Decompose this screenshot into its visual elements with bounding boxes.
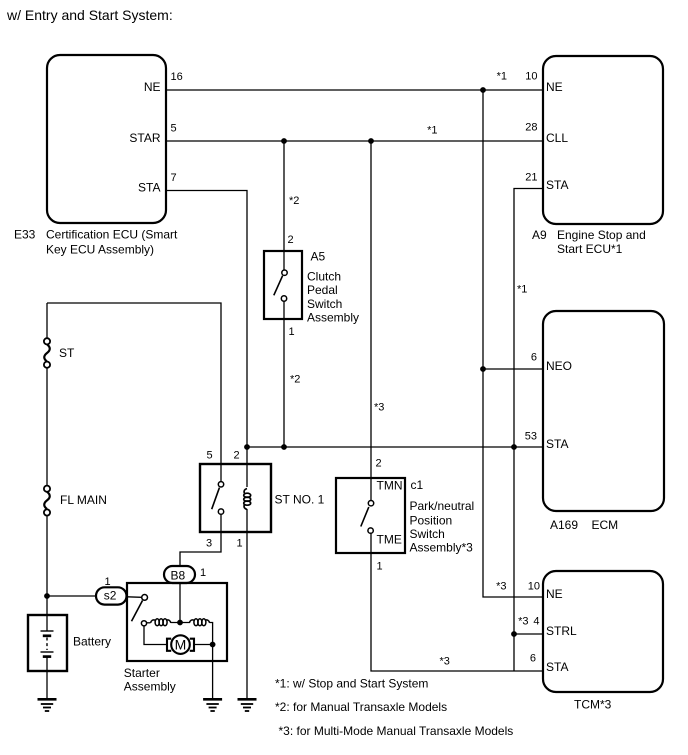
node s2 branch junction <box>44 593 50 599</box>
svg-text:*2: *2 <box>289 195 299 207</box>
relay switch contacts <box>218 482 223 487</box>
svg-text:c1: c1 <box>411 478 424 492</box>
svg-text:ST NO. 1: ST NO. 1 <box>275 493 325 507</box>
svg-text:Park/neutral: Park/neutral <box>410 499 475 513</box>
wire A5 branch lower <box>283 301 285 447</box>
svg-text:2: 2 <box>288 234 294 246</box>
svg-text:FL MAIN: FL MAIN <box>60 493 107 507</box>
node motor junction <box>210 642 216 648</box>
wire battery to ground <box>46 657 48 699</box>
wire A9 STA down to TCM STA line <box>514 189 543 672</box>
wire TME down to TCM STA <box>371 533 543 671</box>
svg-text:6: 6 <box>531 352 537 364</box>
svg-text:Switch: Switch <box>410 527 445 541</box>
ground battery <box>38 699 57 711</box>
svg-text:STA: STA <box>546 178 568 192</box>
svg-text:*1: w/ Stop and Start System: *1: w/ Stop and Start System <box>275 677 428 691</box>
wire B8 down to coil junction <box>179 583 181 623</box>
wire E33 STA down <box>166 191 247 488</box>
svg-text:A169: A169 <box>550 518 578 532</box>
svg-text:Key ECU Assembly): Key ECU Assembly) <box>46 243 154 257</box>
wire STA bus to ECM <box>247 446 543 448</box>
wire contact down to motor <box>144 626 168 645</box>
fusible link ST <box>44 338 75 368</box>
wire junction to s2 <box>47 595 96 597</box>
svg-text:Pedal: Pedal <box>307 283 338 297</box>
svg-text:Starter: Starter <box>124 666 160 680</box>
wire relay pin3 to B8 <box>180 514 221 566</box>
wire starter to ground <box>212 645 214 700</box>
svg-text:1: 1 <box>377 561 383 573</box>
wire *1 vertical to TCM NE <box>483 90 543 597</box>
svg-text:*2: *2 <box>290 374 300 386</box>
node STRL junction <box>511 631 517 637</box>
svg-text:STA: STA <box>546 660 568 674</box>
svg-text:A5: A5 <box>311 250 326 264</box>
svg-text:4: 4 <box>533 616 539 628</box>
svg-text:CLL: CLL <box>546 131 568 145</box>
svg-text:STAR: STAR <box>129 131 160 145</box>
svg-text:Start ECU*1: Start ECU*1 <box>557 242 623 256</box>
A5 switch contacts <box>282 270 287 275</box>
svg-text:5: 5 <box>207 450 213 462</box>
wire A5 branch upper <box>283 141 285 270</box>
relay coil <box>244 489 251 510</box>
relay switch wire top <box>220 464 222 482</box>
starter hold-in coil <box>189 619 209 626</box>
wire motor to junction <box>194 644 213 646</box>
svg-text:*1: *1 <box>517 284 527 296</box>
wire NE bus E33 to A9 <box>166 89 543 91</box>
svg-text:16: 16 <box>171 71 183 83</box>
svg-text:Switch: Switch <box>307 297 342 311</box>
wire right coil to motor junction <box>209 623 212 645</box>
node STA bus left junction <box>244 444 250 450</box>
svg-text:B8: B8 <box>171 569 186 583</box>
node STAR/park junction <box>368 138 374 144</box>
starter pull-in coil <box>151 619 171 626</box>
svg-text:E33: E33 <box>14 228 36 242</box>
svg-text:M: M <box>175 637 187 653</box>
wire left main upper <box>46 303 48 338</box>
starter switch lever <box>132 601 143 622</box>
svg-text:*1: *1 <box>427 125 437 137</box>
fusible link FL MAIN <box>44 486 107 516</box>
svg-text:TCM*3: TCM*3 <box>574 698 612 712</box>
wire contact to left coil <box>147 622 151 624</box>
node NEO junction <box>480 366 486 372</box>
starter switch contact <box>142 595 148 601</box>
wire STRL stub <box>514 633 543 635</box>
wire s2 to starter switch <box>127 596 142 599</box>
svg-text:ECM: ECM <box>592 518 619 532</box>
svg-text:*1: *1 <box>497 71 507 83</box>
svg-text:Engine Stop and: Engine Stop and <box>557 228 646 242</box>
svg-text:Assembly: Assembly <box>307 311 359 325</box>
wire relay coil to ground <box>246 509 248 699</box>
svg-text:28: 28 <box>525 122 537 134</box>
svg-text:NE: NE <box>546 587 563 601</box>
svg-text:*3: *3 <box>518 616 528 628</box>
svg-text:STRL: STRL <box>546 624 577 638</box>
ECM A169 box <box>543 311 664 511</box>
wire FL MAIN to battery <box>46 516 48 631</box>
wire battery feed top <box>47 303 221 464</box>
svg-text:6: 6 <box>530 653 536 665</box>
svg-text:1: 1 <box>237 538 243 550</box>
svg-text:*3: *3 <box>440 656 450 668</box>
svg-text:10: 10 <box>528 581 540 593</box>
clutch switch A5 box <box>264 251 302 319</box>
svg-text:NEO: NEO <box>546 359 572 373</box>
connector B8 <box>164 566 195 583</box>
wire between coils <box>171 622 190 624</box>
svg-text:w/ Entry and Start System:: w/ Entry and Start System: <box>6 7 173 23</box>
park switch lever <box>361 507 369 527</box>
svg-text:Assembly*3: Assembly*3 <box>410 541 474 555</box>
svg-text:Battery: Battery <box>73 635 111 649</box>
svg-text:21: 21 <box>525 172 537 184</box>
node A9-STA/STA bus junction <box>511 444 517 450</box>
motor M1 <box>167 635 194 654</box>
ECU E33 box <box>47 55 166 223</box>
svg-text:1: 1 <box>200 567 206 579</box>
svg-text:NE: NE <box>144 80 161 94</box>
svg-text:10: 10 <box>525 71 537 83</box>
svg-text:s2: s2 <box>104 589 117 603</box>
node STAR/A5 junction <box>281 138 287 144</box>
svg-text:53: 53 <box>525 431 537 443</box>
connector s2 <box>96 587 127 604</box>
node coil junction <box>177 620 183 626</box>
wire park branch upper <box>370 141 372 500</box>
svg-text:2: 2 <box>234 450 240 462</box>
starter assembly box <box>127 583 227 661</box>
svg-text:1: 1 <box>289 326 295 338</box>
svg-text:5: 5 <box>171 123 177 135</box>
svg-text:TME: TME <box>377 533 402 547</box>
starter coil input contact <box>141 621 146 626</box>
wire NEO stub <box>483 368 543 370</box>
svg-text:7: 7 <box>171 172 177 184</box>
TCM box <box>543 571 663 692</box>
svg-text:TMN: TMN <box>377 479 403 493</box>
svg-text:Certification ECU (Smart: Certification ECU (Smart <box>46 228 178 242</box>
park/neutral switch box <box>336 478 405 553</box>
svg-text:3: 3 <box>206 538 212 550</box>
svg-text:*2: for Manual Transaxle Model: *2: for Manual Transaxle Models <box>275 700 447 714</box>
svg-text:Assembly: Assembly <box>124 680 176 694</box>
svg-text:*3: *3 <box>496 581 506 593</box>
svg-text:Position: Position <box>410 514 453 528</box>
svg-text:A9: A9 <box>532 228 547 242</box>
svg-text:*3: *3 <box>374 402 384 414</box>
svg-text:2: 2 <box>376 458 382 470</box>
park switch contacts <box>368 501 373 506</box>
battery cells <box>41 631 54 657</box>
svg-text:Clutch: Clutch <box>307 270 341 284</box>
node NE junction <box>480 87 486 93</box>
wire between links <box>46 368 48 486</box>
ground relay coil <box>238 699 257 711</box>
A5 switch lever <box>274 276 283 296</box>
svg-text:NE: NE <box>546 80 563 94</box>
svg-text:*3: for Multi-Mode Manual Tran: *3: for Multi-Mode Manual Transaxle Mode… <box>279 724 514 738</box>
ground starter <box>203 699 222 711</box>
node A5/STA bus junction <box>281 444 287 450</box>
svg-text:ST: ST <box>59 346 75 360</box>
battery box <box>28 615 67 671</box>
ECU A9 box <box>543 56 663 224</box>
svg-text:STA: STA <box>138 181 160 195</box>
svg-text:STA: STA <box>546 437 568 451</box>
svg-text:1: 1 <box>105 576 111 588</box>
relay ST NO.1 box <box>200 464 271 532</box>
wire STAR bus E33 to CLL A9 <box>166 140 543 142</box>
relay switch lever <box>212 488 220 510</box>
